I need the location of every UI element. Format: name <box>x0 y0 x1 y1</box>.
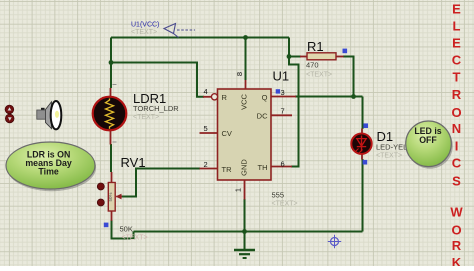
svg-text:<TEXT>: <TEXT> <box>122 235 148 242</box>
speech bubble LED is OFF <box>406 121 453 169</box>
wire branch to pin 4 <box>111 63 204 97</box>
svg-text:S: S <box>452 174 461 189</box>
wire LED top drop <box>362 97 364 130</box>
svg-text:4: 4 <box>204 87 208 96</box>
svg-text:GND: GND <box>240 159 249 176</box>
wire RV1 bottom jog <box>112 220 134 239</box>
svg-text:Q: Q <box>262 93 268 102</box>
svg-text:CV: CV <box>222 129 232 138</box>
wire GND drop <box>244 199 246 232</box>
R1 selection handle <box>343 49 348 54</box>
junction node R1 left <box>287 54 292 59</box>
LED selection handle bottom <box>363 160 368 165</box>
svg-text:<TEXT>: <TEXT> <box>133 114 159 121</box>
svg-text:R: R <box>452 238 462 253</box>
svg-text:N: N <box>452 121 461 136</box>
torch down control <box>5 114 14 123</box>
junction node VCC-U1 <box>243 35 248 40</box>
potentiometer RV1 <box>108 172 122 221</box>
pin 7 DC <box>271 114 292 116</box>
ground <box>234 232 255 259</box>
RV1 down control <box>97 199 104 206</box>
svg-text:<TEXT>: <TEXT> <box>131 29 157 36</box>
pin3 selection handle <box>276 89 280 93</box>
wire R1 left lead connection <box>289 56 301 58</box>
svg-text:OFF: OFF <box>419 135 437 145</box>
svg-text:L: L <box>453 19 461 34</box>
junction node ground <box>242 229 247 234</box>
svg-text:T: T <box>453 70 461 85</box>
pin 1 GND <box>244 180 246 200</box>
RV1 up control <box>97 183 104 190</box>
resistor R1 <box>300 53 344 60</box>
watermark WORK <box>450 205 463 271</box>
LED D1 <box>351 129 371 160</box>
svg-text:C: C <box>452 156 462 171</box>
svg-text:VCC: VCC <box>240 94 249 110</box>
wire VCC top rail <box>111 37 289 39</box>
torch <box>37 101 62 129</box>
pin 3 Q <box>271 96 296 98</box>
svg-text:Time: Time <box>38 167 58 177</box>
svg-text:555: 555 <box>272 191 285 200</box>
svg-text:50K: 50K <box>120 224 133 233</box>
junction node VCC-LDR <box>109 60 114 65</box>
speech bubble LDR is ON means Day Time <box>6 142 96 191</box>
svg-text:6: 6 <box>281 159 285 168</box>
origin marker <box>328 235 341 248</box>
wire bottom ground rail <box>134 231 363 233</box>
svg-text:I: I <box>455 139 459 154</box>
power terminal U1(VCC) <box>164 24 195 38</box>
IC U1 555 <box>200 72 297 200</box>
svg-text:50%: 50% <box>108 192 113 201</box>
svg-text:O: O <box>451 223 461 238</box>
svg-text:R: R <box>222 93 228 102</box>
svg-text:5: 5 <box>204 124 208 133</box>
svg-text:TORCH_LDR: TORCH_LDR <box>133 104 179 113</box>
svg-text:RV1: RV1 <box>121 155 146 170</box>
svg-text:<TEXT>: <TEXT> <box>272 201 298 208</box>
svg-text:C: C <box>452 53 462 68</box>
wire LED bottom drop <box>362 159 364 232</box>
pin 6 TH <box>271 166 292 168</box>
RV1 selection handle <box>104 223 109 228</box>
svg-text:E: E <box>452 35 461 50</box>
wire LDR top column <box>110 38 112 89</box>
wire Q-TH branch <box>289 57 299 167</box>
svg-text:E: E <box>452 2 461 17</box>
pin 4 R with bubble <box>203 96 211 98</box>
svg-text:O: O <box>451 105 461 120</box>
wire Q pin to LED column <box>295 96 363 98</box>
watermark ELECTRONICS <box>451 2 461 189</box>
svg-text:3: 3 <box>281 88 285 97</box>
svg-text:W: W <box>450 205 463 220</box>
svg-text:7: 7 <box>281 107 285 116</box>
svg-text:K: K <box>452 255 462 266</box>
junction node below R1 <box>351 94 356 99</box>
svg-text:R: R <box>452 87 462 102</box>
svg-text:R1: R1 <box>307 39 324 54</box>
svg-text:DC: DC <box>257 112 268 121</box>
pin 5 CV <box>200 132 218 134</box>
wire down to R1 junction <box>288 38 290 57</box>
svg-text:<TEXT>: <TEXT> <box>306 72 332 79</box>
svg-text:8: 8 <box>235 72 244 76</box>
wire VCC drop to pin 8 <box>245 38 247 81</box>
wire LDR to RV1 <box>110 144 112 172</box>
LED selection handle top <box>363 123 368 128</box>
svg-text:1: 1 <box>234 188 243 192</box>
svg-text:TR: TR <box>222 165 233 174</box>
torch up control <box>5 105 14 114</box>
svg-text:U1(VCC): U1(VCC) <box>131 22 159 29</box>
wire R1 right to junction <box>343 57 354 97</box>
svg-text:470: 470 <box>306 61 319 70</box>
pin 2 TR <box>200 168 218 170</box>
svg-text:2: 2 <box>204 160 208 169</box>
pin 8 VCC <box>245 80 247 89</box>
svg-text:<TEXT>: <TEXT> <box>376 152 402 159</box>
svg-text:TH: TH <box>258 163 268 172</box>
svg-text:U1: U1 <box>273 69 290 84</box>
wire RV1 wiper to pin 2 <box>121 169 200 197</box>
LDR LDR1 <box>93 85 127 145</box>
